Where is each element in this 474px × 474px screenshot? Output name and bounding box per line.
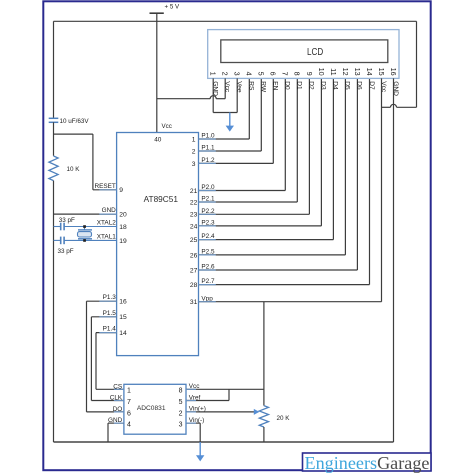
svg-text:D5: D5 xyxy=(344,81,351,90)
svg-text:LCD: LCD xyxy=(307,47,323,58)
svg-text:3: 3 xyxy=(192,161,196,168)
svg-text:26: 26 xyxy=(190,252,198,259)
svg-text:33 pF: 33 pF xyxy=(58,248,74,255)
svg-text:14: 14 xyxy=(119,330,127,337)
wire LCD pin3 to ground xyxy=(236,78,238,112)
wire P1.4 to ADC CS xyxy=(96,333,124,390)
wire U1 GND pin20 xyxy=(54,213,117,215)
IC U1 AT89C51 body xyxy=(117,133,199,356)
svg-text:AT89C51: AT89C51 xyxy=(144,194,179,204)
svg-text:5: 5 xyxy=(257,72,266,76)
svg-text:RESET: RESET xyxy=(94,183,115,190)
svg-text:4: 4 xyxy=(127,422,131,429)
wire Vcc rail to LCD pin15 with hop xyxy=(382,104,417,107)
svg-text:28: 28 xyxy=(190,282,198,289)
svg-text:31: 31 xyxy=(190,299,198,306)
wire Vcc top rail xyxy=(54,20,417,22)
wire U1 P2.1 to LCD pin8 xyxy=(199,78,298,202)
wire Vcc node vertical xyxy=(263,302,265,406)
wire left rail to C1 xyxy=(53,21,55,118)
svg-text:20 K: 20 K xyxy=(277,415,291,422)
svg-text:3: 3 xyxy=(233,72,242,76)
wire bottom ground rail xyxy=(54,441,394,443)
wire XTAL1 with C3 gap xyxy=(54,239,117,241)
wire P1.5 to ADC CLK xyxy=(91,317,124,401)
wire Vcc rail right side xyxy=(416,21,418,107)
EngineersGarage logo xyxy=(303,453,432,473)
wire U1 P1.1 to LCD pin5 xyxy=(199,78,262,151)
svg-text:D7: D7 xyxy=(368,81,375,90)
svg-text:10: 10 xyxy=(317,68,326,76)
svg-text:2: 2 xyxy=(192,148,196,155)
svg-text:D2: D2 xyxy=(308,81,315,90)
svg-text:GND: GND xyxy=(212,81,219,96)
svg-text:RW: RW xyxy=(260,81,267,93)
svg-text:9: 9 xyxy=(305,72,314,76)
svg-text:7: 7 xyxy=(281,72,290,76)
svg-text:4: 4 xyxy=(245,72,254,76)
wire LCD pin2 to +5V with hop xyxy=(157,78,225,98)
svg-text:24: 24 xyxy=(190,223,198,230)
svg-text:14: 14 xyxy=(365,68,374,76)
wire U2 Vin(+) wiper xyxy=(186,409,259,415)
wire R2 to ground rail xyxy=(263,427,265,442)
wire U1 P2.4 to LCD pin11 xyxy=(199,78,334,239)
svg-text:2: 2 xyxy=(221,72,230,76)
svg-text:16: 16 xyxy=(389,68,398,76)
svg-text:25: 25 xyxy=(190,237,198,244)
svg-text:9: 9 xyxy=(119,187,123,194)
wire U2 Vin(-) to ground rail xyxy=(186,423,200,442)
wire U1 P2.7 to LCD pin14 xyxy=(199,78,370,284)
wire P1.3 to ADC DO xyxy=(87,301,124,412)
svg-text:+ 5 V: + 5 V xyxy=(165,4,180,11)
pin stubs xyxy=(99,139,216,423)
ADC U2 ADC0831 body xyxy=(124,384,186,434)
wire U1 P2.0 to LCD pin7 xyxy=(199,78,286,190)
svg-text:33 pF: 33 pF xyxy=(59,217,75,224)
ground LCD xyxy=(226,113,234,132)
svg-text:D6: D6 xyxy=(356,81,363,90)
wire U1 P2.3 to LCD pin10 xyxy=(199,78,322,226)
svg-text:7: 7 xyxy=(127,399,131,406)
wire R1 bottom to ground rail xyxy=(53,181,55,442)
svg-text:20: 20 xyxy=(119,212,127,219)
capacitor C1 10uF/63V xyxy=(49,118,59,122)
wire +5V to U1 pin40 xyxy=(156,13,158,132)
svg-text:15: 15 xyxy=(377,68,386,76)
+5V supply xyxy=(150,4,180,14)
wire C1 to reset node xyxy=(53,122,55,156)
svg-text:6: 6 xyxy=(127,410,131,417)
svg-text:22: 22 xyxy=(190,199,198,206)
capacitor C3 33pF xyxy=(61,237,64,245)
svg-text:8: 8 xyxy=(179,388,183,395)
svg-text:11: 11 xyxy=(329,68,338,75)
junction crystal bottom xyxy=(83,239,86,242)
svg-text:21: 21 xyxy=(190,188,198,195)
svg-text:5: 5 xyxy=(179,399,183,406)
svg-text:8: 8 xyxy=(293,72,302,76)
svg-text:Vee: Vee xyxy=(236,81,243,93)
wire LCD pin15 to Vpp xyxy=(381,78,383,301)
svg-text:GND: GND xyxy=(102,207,117,214)
LCD display box xyxy=(221,40,388,63)
svg-text:D1: D1 xyxy=(296,81,303,90)
svg-text:23: 23 xyxy=(190,212,198,219)
svg-text:1: 1 xyxy=(127,388,131,395)
svg-text:12: 12 xyxy=(341,68,350,76)
svg-text:27: 27 xyxy=(190,267,198,274)
svg-text:10 uF/63V: 10 uF/63V xyxy=(60,118,90,125)
ground ADC xyxy=(196,442,204,461)
svg-text:15: 15 xyxy=(119,314,127,321)
svg-text:EN: EN xyxy=(272,81,279,90)
svg-text:3: 3 xyxy=(179,422,183,429)
wire U2 GND to ground rail xyxy=(108,423,124,442)
svg-text:6: 6 xyxy=(269,72,278,76)
svg-text:D0: D0 xyxy=(284,81,291,90)
svg-text:XTAL2: XTAL2 xyxy=(97,220,117,227)
svg-text:19: 19 xyxy=(119,238,127,245)
svg-text:D3: D3 xyxy=(320,81,327,90)
svg-text:Vcc: Vcc xyxy=(380,81,387,93)
svg-text:GND: GND xyxy=(392,81,399,96)
svg-text:EngineersGarage: EngineersGarage xyxy=(305,453,430,473)
svg-text:Vcc: Vcc xyxy=(162,123,172,130)
svg-text:18: 18 xyxy=(119,224,127,231)
junction crystal top xyxy=(83,225,86,228)
svg-text:40: 40 xyxy=(154,137,162,144)
svg-text:P1.3: P1.3 xyxy=(103,294,117,301)
svg-text:XTAL1: XTAL1 xyxy=(97,233,117,240)
svg-text:RS: RS xyxy=(248,81,255,91)
svg-text:2: 2 xyxy=(179,410,183,417)
crystal X1 xyxy=(78,227,93,241)
svg-text:Vcc: Vcc xyxy=(224,81,231,93)
svg-text:16: 16 xyxy=(119,299,127,306)
wire LCD pin16 to ground rail xyxy=(54,78,394,442)
svg-text:13: 13 xyxy=(353,68,362,76)
svg-text:1: 1 xyxy=(192,136,196,143)
wire U2 Vref to Vcc xyxy=(186,389,229,400)
wire U1 P2.2 to LCD pin9 xyxy=(199,78,310,214)
svg-text:10 K: 10 K xyxy=(67,166,81,173)
wire reset branch xyxy=(54,134,117,190)
capacitor C2 33pF xyxy=(61,223,64,231)
svg-text:ADC0831: ADC0831 xyxy=(137,405,166,412)
wire U1 P2.6 to LCD pin13 xyxy=(199,78,358,270)
wire LCD pin1 to ground xyxy=(213,78,237,112)
svg-text:D4: D4 xyxy=(332,81,339,90)
wire U1 Vpp to LCD pin15 line xyxy=(199,301,382,303)
wire U1 P1.2 to LCD pin6 xyxy=(199,78,274,163)
wire U1 P1.0 to LCD pin4 xyxy=(199,78,250,139)
LCD module outer box xyxy=(208,30,399,79)
svg-text:P1.5: P1.5 xyxy=(103,310,117,317)
resistor R1 10K xyxy=(49,156,58,181)
svg-text:1: 1 xyxy=(209,72,218,76)
potentiometer R2 20K xyxy=(259,406,268,427)
wire XTAL2 with C2 gap xyxy=(54,226,117,228)
wire U1 P2.5 to LCD pin12 xyxy=(199,78,346,255)
wire U2 Vcc to Vcc node xyxy=(186,388,264,390)
svg-text:P1.4: P1.4 xyxy=(103,326,117,333)
